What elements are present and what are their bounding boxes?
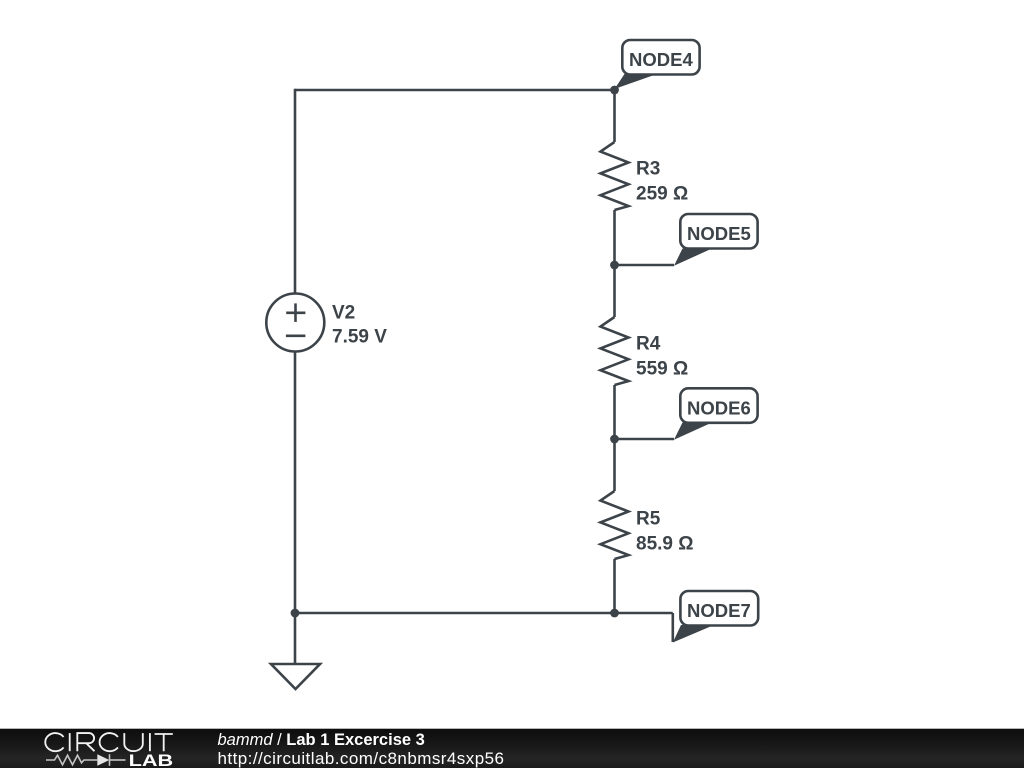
svg-text:NODE6: NODE6 [687,397,751,418]
node NODE7 flag [673,591,758,643]
svg-text:7.59 V: 7.59 V [332,327,387,348]
wire R5 top lead [613,439,616,491]
resistor R5 [601,491,629,559]
resistor R3 [601,142,629,210]
ground [271,664,320,689]
svg-text:V2: V2 [332,303,355,324]
wire left vertical lower (V2 minus lead) [294,352,297,614]
resistor R4 [601,317,629,385]
wire node7 stub down [671,613,674,642]
wire R4 bottom lead to node6 [613,385,616,439]
svg-text:R5: R5 [636,509,661,530]
node NODE6 flag [674,388,758,440]
wire node6 stub [615,438,675,441]
node A junction dot top (node4) [610,86,619,95]
svg-text:bammd / Lab 1 Excercise 3: bammd / Lab 1 Excercise 3 [218,731,425,749]
wire node5 stub [615,264,675,267]
svg-text:http://circuitlab.com/c8nbmsr4: http://circuitlab.com/c8nbmsr4sxp56 [218,749,505,768]
node NODE5 flag [674,214,758,266]
wire top horizontal (node4 net) [295,89,615,92]
wire R3 bottom lead to node5 [613,210,616,265]
node B junction dot node5 [610,261,619,270]
node NODE4 flag [615,40,700,89]
node D junction dot node7 [610,609,619,618]
svg-text:R4: R4 [636,334,661,355]
svg-text:LAB: LAB [129,751,174,768]
voltage source V2 [266,294,324,352]
wire R5 bottom lead [613,559,616,613]
CircuitLab logo resistor-diode symbol [46,754,126,766]
svg-text:259 Ω: 259 Ω [636,184,688,205]
node C junction dot node6 [610,435,619,444]
svg-text:NODE7: NODE7 [687,600,751,621]
footer bar [0,729,1024,768]
wire R4 top lead [613,265,616,317]
svg-text:559 Ω: 559 Ω [636,359,688,380]
svg-text:NODE4: NODE4 [629,49,693,70]
wire R3 top lead [613,90,616,142]
svg-text:NODE5: NODE5 [687,223,751,244]
wire ground stub [294,613,297,664]
node E junction dot bottom left [291,609,300,618]
CircuitLab logo CIRCUIT text [45,733,173,751]
wire bottom horizontal (node7 net) [295,612,673,615]
wire left vertical upper (V2 plus lead) [294,89,297,294]
svg-text:R3: R3 [636,159,660,180]
svg-text:85.9 Ω: 85.9 Ω [636,534,694,555]
